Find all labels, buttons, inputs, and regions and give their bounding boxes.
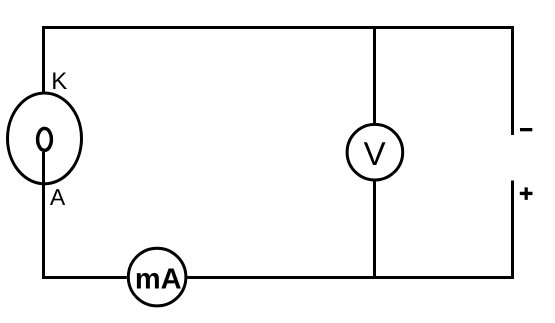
svg-text:mA: mA	[135, 263, 182, 295]
svg-text:A: A	[50, 184, 66, 210]
photocell anode electrode	[38, 128, 52, 150]
wire: top rail from photocell K terminal to right terminal	[44, 28, 513, 136]
wire: voltmeter top lead	[373, 28, 376, 124]
voltmeter V1 circle	[347, 124, 403, 180]
milliammeter A1 circle	[128, 248, 186, 306]
wire: voltmeter bottom lead	[373, 181, 376, 278]
battery positive terminal mark	[520, 187, 533, 200]
battery negative terminal mark	[520, 128, 532, 131]
wire: anode lead down-left side to bottom rail	[44, 152, 127, 278]
photocell tube envelope	[8, 93, 82, 184]
wire: bottom rail from milliammeter to right terminal	[187, 181, 512, 278]
svg-text:V: V	[364, 135, 386, 172]
svg-text:K: K	[51, 68, 67, 95]
